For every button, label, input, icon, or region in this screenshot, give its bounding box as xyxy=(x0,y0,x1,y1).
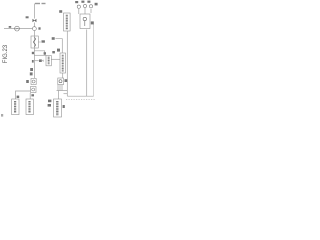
svg-text:FIG.23: FIG.23 xyxy=(3,44,9,63)
